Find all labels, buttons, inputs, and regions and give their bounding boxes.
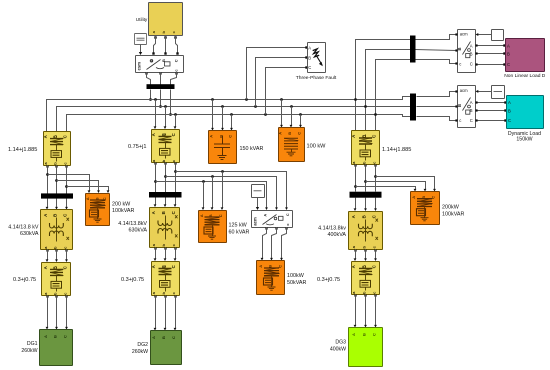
svg-text:B: B	[161, 336, 166, 339]
svg-text:A: A	[151, 336, 156, 339]
svg-text:125 kW: 125 kW	[229, 223, 248, 229]
wire mid tap phase B to breaker CB3	[164, 175, 278, 210]
svg-text:50kVAR: 50kVAR	[287, 280, 306, 286]
constant block K1 (csm control source)	[135, 34, 147, 45]
svg-text:B: B	[508, 108, 511, 113]
svg-text:A: A	[43, 335, 48, 338]
wire drop to resistive load phase C	[299, 113, 302, 127]
wire CB2 to dynamic load phase B	[475, 109, 506, 111]
breaker CB2 (three-phase breaker)	[455, 86, 475, 128]
svg-text:C: C	[174, 59, 179, 62]
wire CB3 to load L3 phase c	[280, 227, 288, 260]
svg-text:acm: acm	[460, 32, 468, 37]
transformer T1 4.14/13.8 kV 630kVA	[41, 210, 73, 250]
wire busbar B4 to transformer T1 b	[55, 199, 58, 210]
wire mid tap phase A to breaker CB3	[154, 180, 268, 210]
load L3 100kW 50kVAR	[257, 261, 285, 295]
svg-text:c: c	[459, 118, 461, 123]
svg-text:4.14/13.8kv: 4.14/13.8kv	[318, 226, 346, 232]
svg-text:c: c	[286, 223, 290, 225]
wire T1 to Z2L phase a	[46, 249, 49, 262]
wire CB3 to load L3 phase b	[270, 227, 278, 260]
svg-text:DG2: DG2	[137, 342, 148, 348]
wire busbar B2 to breaker CB1 phase C	[416, 60, 456, 64]
breaker CB1 (three-phase breaker)	[455, 30, 475, 73]
wire drop to feeder Z2 phase C	[174, 113, 177, 129]
wire fault phase A	[245, 46, 308, 101]
busbar B6 (DG3 feeder bus)	[350, 192, 382, 198]
wire Z1R out b down to busbar B6	[364, 164, 366, 191]
constant block K3 (CB3 control)	[252, 185, 265, 198]
svg-text:B: B	[161, 211, 166, 214]
svg-text:0.3+j0.75: 0.3+j0.75	[121, 277, 144, 283]
wire tap to load L1 phase C	[65, 185, 109, 193]
wire Z1L out a down to busbar B4	[46, 165, 48, 193]
svg-text:100kVAR: 100kVAR	[442, 212, 464, 218]
busbar B1 (main bus connector)	[147, 84, 175, 89]
svg-text:C: C	[171, 336, 176, 339]
wire bus phase A (top distribution line)	[47, 97, 411, 132]
wire Z2M out c down to busbar B5	[174, 162, 176, 192]
svg-text:A: A	[199, 214, 204, 217]
wire CSM out b to busbar B1	[159, 72, 161, 84]
wire Z2M out a down to busbar B5	[154, 162, 156, 192]
constant block K2 (CB2 control)	[492, 86, 505, 99]
svg-text:630kVA: 630kVA	[129, 228, 148, 234]
fault block Three-Phase Fault	[308, 43, 326, 73]
wire drop to feeder Z2 phase A	[154, 98, 157, 129]
svg-text:1.14+j1.885: 1.14+j1.885	[8, 147, 37, 153]
wire T3 to Z3R phase a	[354, 249, 357, 261]
svg-text:100 kW: 100 kW	[307, 144, 327, 150]
svg-text:100kVAR: 100kVAR	[112, 208, 134, 214]
resistive load 100 kW	[278, 128, 305, 162]
wire busbar B3 to breaker CB2 phase C	[417, 117, 456, 121]
svg-text:B: B	[470, 108, 473, 113]
wire busbar B3 to breaker CB2 phase B	[417, 106, 456, 108]
wire tap to load L1 phase B	[55, 179, 100, 193]
transformer T2 4.14/13.8kV 630kVA	[150, 208, 180, 248]
load L2 125 kW 60 kVAR	[199, 211, 227, 243]
svg-text:C: C	[470, 61, 473, 66]
wire Z3M to DG2 phase b	[164, 295, 167, 330]
svg-text:A: A	[507, 44, 510, 49]
generator DG2 260kW	[151, 331, 182, 365]
impedance Z1 left 1.14+j1.885	[43, 132, 71, 166]
svg-text:C: C	[470, 118, 473, 123]
svg-text:630kVA: 630kVA	[20, 231, 39, 237]
wire busbar B5 to transformer T2 c	[174, 198, 177, 208]
wire busbar B5 to transformer T2 b	[164, 198, 167, 208]
svg-text:4.14/13.8kV: 4.14/13.8kV	[118, 221, 147, 227]
svg-text:B: B	[457, 47, 462, 50]
svg-text:B: B	[457, 104, 462, 107]
svg-text:A: A	[508, 100, 511, 105]
svg-text:acm: acm	[460, 88, 468, 93]
source Utility (three-phase source block)	[149, 3, 183, 36]
svg-text:A: A	[258, 265, 263, 268]
svg-text:C: C	[297, 132, 302, 135]
wire T1 to Z2L phase c	[65, 249, 68, 262]
svg-text:100kW: 100kW	[287, 273, 305, 279]
busbar B3 (dynamic load feeder)	[410, 94, 416, 121]
wire CSM out a to busbar B1	[145, 72, 150, 84]
wire CSM out c to busbar B1	[171, 72, 178, 84]
wire busbar B6 to transformer T3 b	[364, 198, 367, 212]
wire utility phase c to CSM	[174, 36, 178, 55]
wire CB3 to load L3 phase a	[261, 227, 268, 260]
wire riser phase C to busbar B2	[374, 60, 410, 131]
svg-text:A: A	[209, 135, 214, 138]
wire tap to load L4 phase B	[364, 180, 426, 191]
wire busbar B6 to transformer T3 c	[374, 198, 377, 212]
wire T2 to Z3M phase b	[164, 247, 167, 261]
wire Z2L to DG1 phase a	[46, 295, 49, 329]
wire tap to load L4 phase C	[374, 175, 436, 191]
svg-text:A: A	[308, 45, 311, 50]
wire K3 to breaker CB3	[256, 198, 259, 211]
wire Z3M to DG2 phase c	[174, 295, 177, 330]
svg-text:260kW: 260kW	[132, 349, 148, 355]
wire drop to load L2 phase A	[202, 182, 205, 211]
wire drop to capacitor bank phase C	[230, 113, 233, 130]
wire bus phase C (bottom distribution line)	[67, 115, 411, 132]
impedance Z1 right 1.14+j1.885	[351, 131, 380, 165]
wire utility phase a to CSM	[152, 36, 156, 55]
svg-text:A: A	[264, 214, 268, 217]
wire busbar B4 to transformer T1 c	[65, 199, 68, 210]
wire CB1 to non linear load phase A	[475, 44, 505, 46]
svg-text:csm: csm	[137, 62, 142, 71]
svg-text:B: B	[507, 52, 510, 57]
svg-text:0.75+j1: 0.75+j1	[128, 144, 147, 150]
svg-text:150 kVAR: 150 kVAR	[240, 146, 264, 152]
svg-text:A: A	[351, 333, 356, 336]
wire busbar B2 to breaker CB1 phase B	[416, 50, 456, 51]
svg-text:A: A	[411, 196, 416, 199]
svg-text:C: C	[286, 213, 290, 216]
load Dynamic Load 150kW	[507, 96, 544, 129]
svg-text:A: A	[85, 197, 90, 200]
load Non Linear Load D	[506, 39, 545, 72]
wire busbar B1 stub phase B to bus	[159, 90, 162, 108]
wire Z1L out c down to busbar B4	[65, 165, 67, 193]
svg-text:0.3+j0.75: 0.3+j0.75	[13, 277, 36, 283]
transformer T3 4.14/13.8kv 400kVA	[349, 212, 383, 250]
wire drop to load L2 phase C	[221, 172, 224, 211]
capacitor bank 150 kVAR	[209, 131, 237, 164]
wire busbar B4 to transformer T1 a	[46, 199, 49, 210]
wire CB1 to non linear load phase B	[475, 52, 505, 54]
svg-text:4.14/13.8 kV: 4.14/13.8 kV	[8, 225, 39, 231]
svg-text:C: C	[308, 65, 311, 70]
wire busbar B5 to transformer T2 a	[154, 198, 157, 208]
wire fault phase C	[264, 66, 308, 116]
svg-text:B: B	[362, 333, 367, 336]
svg-text:60 kVAR: 60 kVAR	[229, 230, 250, 236]
svg-text:c: c	[459, 61, 461, 66]
wire Z3R to DG3 phase b	[364, 294, 367, 327]
wire Z2L to DG1 phase c	[65, 295, 68, 329]
svg-text:C: C	[228, 135, 233, 138]
svg-text:DG3: DG3	[335, 340, 346, 346]
impedance Z3 middle 0.3+j0.75	[151, 262, 180, 296]
wire bus phase B (middle distribution line)	[57, 107, 411, 132]
svg-text:B: B	[470, 51, 473, 56]
svg-text:A: A	[278, 132, 283, 135]
svg-text:B: B	[287, 132, 292, 135]
svg-text:B: B	[362, 215, 367, 218]
wire drop to feeder Z2 phase B	[164, 105, 167, 129]
wire tap to load L4 phase A	[354, 185, 416, 191]
wire drop to capacitor bank phase B	[221, 105, 224, 130]
wire drop to load L2 phase B	[211, 177, 214, 211]
svg-text:C: C	[508, 118, 511, 123]
svg-text:0.3+j0.75: 0.3+j0.75	[317, 277, 340, 283]
generator DG3 400kW	[349, 328, 383, 367]
wire T2 to Z3M phase c	[174, 247, 177, 261]
wire Z1L out b down to busbar B4	[55, 165, 57, 193]
svg-text:400kW: 400kW	[330, 347, 346, 353]
svg-text:200kW: 200kW	[442, 205, 460, 211]
svg-text:400kVA: 400kVA	[328, 232, 347, 238]
wire Z3R to DG3 phase c	[374, 294, 377, 327]
impedance Z3 right 0.3+j0.75	[351, 262, 380, 295]
wire K1 to CSM control port	[139, 45, 142, 56]
wire Z1R out a down to busbar B6	[354, 164, 356, 191]
wire Z2M out b down to busbar B5	[164, 162, 166, 192]
svg-text:acm: acm	[253, 217, 258, 226]
wire busbar B6 to transformer T3 a	[354, 198, 357, 212]
wire busbar B1 stub phase A to bus	[149, 90, 152, 101]
wire T1 to Z2L phase b	[55, 249, 58, 262]
impedance Z2 left 0.3+j0.75	[42, 263, 71, 296]
svg-text:Non Linear Load D: Non Linear Load D	[504, 73, 546, 79]
wire T3 to Z3R phase b	[364, 249, 367, 261]
wire drop to resistive load phase A	[280, 98, 283, 127]
busbar B2 (non linear load feeder)	[410, 36, 416, 63]
svg-text:C: C	[372, 333, 377, 336]
wire fault phase B	[254, 56, 308, 108]
wire utility phase b to CSM	[164, 36, 166, 55]
svg-text:C: C	[507, 62, 510, 67]
svg-text:150kW: 150kW	[516, 137, 532, 143]
wire CB1 to non linear load phase C	[475, 63, 505, 65]
svg-text:Utility: Utility	[136, 17, 148, 22]
svg-text:1.14+j1.885: 1.14+j1.885	[382, 147, 411, 153]
wire scope S1 to breaker CB1	[476, 33, 492, 36]
svg-text:200 kW: 200 kW	[112, 202, 131, 208]
svg-text:260kW: 260kW	[21, 348, 37, 354]
svg-text:Three-Phase Fault: Three-Phase Fault	[296, 75, 337, 81]
svg-text:C: C	[63, 335, 68, 338]
generator DG1 260kW	[40, 330, 73, 366]
wire Z1R out c down to busbar B6	[374, 164, 376, 191]
wire Z3M to DG2 phase a	[154, 295, 157, 330]
wire riser phase A to busbar B2	[354, 40, 410, 131]
wire Z2L to DG1 phase b	[55, 295, 58, 329]
breaker CB3 (three-phase breaker horizontal)	[252, 211, 293, 228]
impedance Z2 middle 0.75+j1	[151, 130, 180, 163]
breaker CSM (three-phase breaker block)	[136, 56, 184, 73]
wire mid tap phase C to breaker CB3	[174, 170, 288, 210]
wire busbar B2 to breaker CB1 phase A	[416, 35, 456, 40]
wire drop to capacitor bank phase A	[211, 98, 214, 130]
svg-text:DG1: DG1	[27, 341, 38, 347]
wire riser phase B to busbar B2	[364, 50, 410, 131]
wire tap to load L1 phase A	[46, 173, 90, 193]
load L4 200kW 100kVAR	[411, 192, 440, 225]
wire T3 to Z3R phase c	[374, 249, 377, 261]
wire CB2 to dynamic load phase C	[475, 119, 506, 121]
svg-text:B: B	[268, 265, 273, 268]
wire Z3R to DG3 phase a	[354, 294, 357, 327]
svg-text:B: B	[53, 214, 58, 217]
svg-text:C: C	[278, 265, 283, 268]
svg-text:A: A	[470, 43, 473, 48]
wire K2 to breaker CB2	[476, 90, 492, 93]
wire CB2 to dynamic load phase A	[475, 101, 506, 103]
wire busbar B3 to breaker CB2 phase A	[417, 92, 456, 97]
busbar B5 (DG2 feeder bus)	[149, 192, 182, 198]
svg-text:B: B	[308, 55, 311, 60]
svg-text:A: A	[470, 100, 473, 105]
wire busbar B1 stub phase C to bus	[169, 90, 172, 116]
load L1 200 kW 100kVAR	[85, 194, 110, 226]
wire drop to resistive load phase B	[290, 105, 293, 127]
svg-text:B: B	[53, 335, 58, 338]
wire T2 to Z3M phase a	[154, 247, 157, 261]
busbar B4 (DG1 feeder bus)	[41, 193, 73, 198]
scope block S1	[492, 30, 504, 41]
